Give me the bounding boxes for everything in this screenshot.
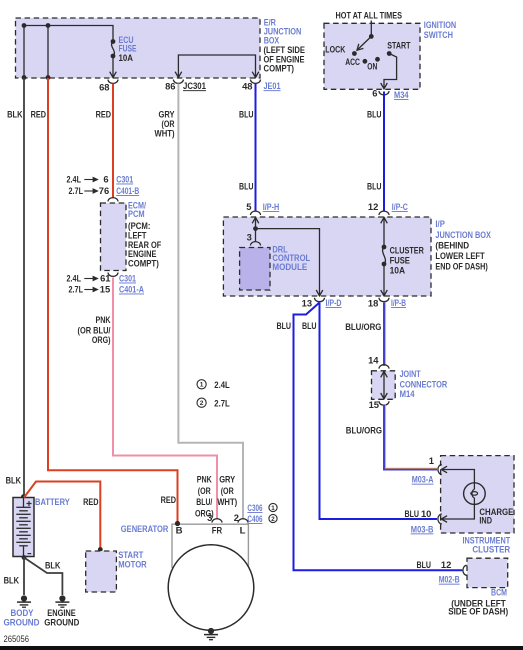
lamp filament curl: [472, 489, 474, 498]
svg-text:C401-B: C401-B: [116, 185, 139, 196]
svg-text:M03-B: M03-B: [411, 523, 434, 534]
svg-text:IND: IND: [479, 515, 492, 525]
pin 6 connector M34: [379, 91, 389, 95]
generator rotor circle: [168, 545, 254, 631]
svg-text:I/P: I/P: [435, 218, 445, 229]
svg-text:13: 13: [302, 298, 312, 309]
svg-text:1: 1: [429, 455, 434, 466]
bottom border bar: [0, 646, 523, 650]
svg-text:10A: 10A: [390, 265, 406, 276]
svg-text:BLU: BLU: [417, 559, 432, 570]
arrow down inside joint connector: [381, 393, 388, 399]
arrow in at pin 12: [381, 218, 388, 224]
svg-text:6: 6: [103, 174, 108, 185]
wire GRY from JC301 to generator L: [178, 84, 243, 519]
svg-text:PNK: PNK: [197, 474, 212, 485]
svg-text:M14: M14: [400, 388, 416, 399]
pin 48 connector JE01: [251, 80, 261, 84]
arrow out at pin 13: [316, 290, 323, 296]
generator case ground: [208, 628, 214, 634]
svg-text:SWITCH: SWITCH: [424, 29, 453, 40]
battery minus sign: [28, 553, 32, 555]
legend circled 2 = 2.7L: [197, 398, 206, 407]
svg-text:14: 14: [368, 355, 379, 366]
svg-text:2.4L: 2.4L: [67, 174, 82, 185]
arrow out at pin 48: [252, 72, 259, 78]
L connector arc: [238, 519, 248, 523]
svg-text:JE01: JE01: [264, 80, 281, 91]
svg-text:BLU: BLU: [239, 109, 254, 120]
node: I/P splice: [253, 226, 258, 231]
svg-text:2: 2: [200, 400, 204, 407]
svg-text:C301: C301: [116, 174, 133, 185]
wire: splice down to DRL pin 3: [255, 229, 257, 242]
arrow out at pin 18: [381, 290, 388, 296]
arrow out at pin 6: [381, 83, 388, 89]
wire BLU pin 13 to BCM pin 12: [294, 303, 463, 571]
svg-text:2.4L: 2.4L: [214, 379, 230, 390]
svg-text:BLK: BLK: [6, 475, 22, 486]
svg-text:I/P-D: I/P-D: [326, 297, 342, 308]
svg-text:RED: RED: [161, 494, 177, 505]
instrument cluster box outline: [441, 456, 514, 533]
wire RED from fuse 68 to ECM: [112, 84, 114, 199]
fuse ECU FUSE 10A: [111, 39, 116, 44]
pin 18 connector I/P-B: [379, 298, 389, 302]
wire BLU from M34 to I/P pin 12: [383, 92, 385, 212]
BCM box outline: [467, 558, 508, 587]
svg-text:START: START: [387, 39, 410, 50]
pin 68 connector: [108, 80, 118, 84]
svg-text:2.4L: 2.4L: [67, 273, 82, 284]
svg-text:BLU/ORG: BLU/ORG: [346, 425, 382, 436]
svg-text:BLU: BLU: [367, 181, 382, 192]
svg-text:1: 1: [200, 382, 204, 389]
svg-text:BLU: BLU: [367, 109, 382, 120]
wire: feed into ignition switch: [370, 21, 372, 37]
svg-text:(BEHIND: (BEHIND: [435, 240, 469, 251]
svg-text:10: 10: [421, 508, 431, 519]
wire: joint connector internal: [383, 372, 385, 398]
svg-text:BLU: BLU: [277, 320, 292, 331]
joint connector M14 box: [372, 371, 396, 400]
svg-text:C401-A: C401-A: [119, 284, 144, 295]
svg-text:6: 6: [372, 88, 377, 99]
wire: fuse output to pin 68: [112, 56, 114, 77]
ground: body ground symbol: [21, 595, 27, 601]
node: switch pivot: [369, 34, 374, 39]
wire BLU pin 13 to instrument cluster pin 10: [320, 303, 438, 520]
start motor box START MOTOR: [86, 551, 117, 592]
wire PNK from ECM to generator FR: [113, 278, 217, 519]
wire: E/R internal jumper pin 86 to pin 48: [178, 55, 255, 77]
svg-text:(OR: (OR: [198, 485, 211, 496]
FR connector arc: [212, 519, 222, 523]
svg-text:COMPT): COMPT): [128, 258, 159, 269]
svg-text:C306: C306: [247, 502, 262, 513]
wire: pin 1 to charge indicator lamp: [441, 470, 474, 483]
connector C301/C401-A below ECM: [108, 273, 118, 277]
svg-text:BLU: BLU: [405, 508, 420, 519]
svg-text:C406: C406: [247, 513, 262, 524]
node: LOCK position: [352, 51, 357, 56]
svg-text:WHT): WHT): [217, 496, 237, 507]
svg-text:12: 12: [368, 201, 378, 212]
node: splice corner dot: [22, 23, 27, 28]
svg-text:MOTOR: MOTOR: [118, 559, 147, 570]
node: BLK exit dot on box edge: [22, 75, 27, 80]
svg-text:JOINT: JOINT: [400, 368, 421, 379]
node: battery positive junction: [21, 494, 26, 499]
ignition switch box outline: [324, 23, 420, 89]
svg-text:BATTERY: BATTERY: [35, 496, 70, 507]
svg-text:GROUND: GROUND: [44, 616, 79, 627]
node: battery negative junction: [22, 555, 27, 560]
battery BATTERY: [13, 498, 34, 557]
battery plates: [23, 498, 25, 508]
svg-text:BLU: BLU: [302, 320, 317, 331]
wire BLU/ORG joint connector to cluster pin 1: [384, 405, 437, 470]
svg-text:GRY: GRY: [219, 474, 236, 485]
wire: pin 12 to cluster fuse: [383, 218, 385, 248]
svg-text:JUNCTION BOX: JUNCTION BOX: [435, 229, 491, 240]
DRL CONTROL MODULE box: [240, 248, 270, 291]
node: start motor terminal dot: [98, 547, 103, 552]
svg-text:LOWER LEFT: LOWER LEFT: [435, 250, 485, 261]
wire RED from E/R box to generator B: [48, 78, 178, 523]
svg-text:3: 3: [207, 512, 212, 523]
svg-text:2.7L: 2.7L: [69, 284, 84, 295]
svg-text:LOCK: LOCK: [325, 44, 345, 55]
E/R junction box (fuse box) outline: [16, 18, 261, 78]
node: B terminal dot: [175, 521, 180, 526]
svg-text:3: 3: [247, 232, 252, 243]
svg-text:(OR: (OR: [221, 485, 234, 496]
svg-text:PCM: PCM: [128, 208, 145, 219]
svg-text:BLK: BLK: [7, 109, 23, 120]
wire: START contact to pin 6: [384, 54, 397, 89]
svg-text:265056: 265056: [4, 634, 30, 644]
svg-text:2.7L: 2.7L: [214, 398, 230, 409]
wire: RED splice drop inside E/R box: [47, 26, 49, 78]
node: ACC position: [363, 59, 368, 64]
wire BLK battery to engine ground: [24, 558, 62, 596]
node: ON position: [375, 57, 380, 62]
svg-text:RED: RED: [83, 496, 99, 507]
svg-text:HOT AT ALL TIMES: HOT AT ALL TIMES: [336, 10, 403, 21]
arrow in at pin 1: [441, 466, 447, 473]
svg-text:GROUND: GROUND: [4, 616, 40, 627]
pin 15 connector: [379, 401, 389, 405]
svg-text:M02-B: M02-B: [439, 574, 460, 585]
svg-text:BLK: BLK: [45, 560, 61, 571]
svg-text:ON: ON: [367, 60, 377, 71]
svg-text:M34: M34: [394, 89, 409, 100]
svg-text:B: B: [176, 526, 183, 537]
svg-text:12: 12: [441, 559, 451, 570]
svg-text:I/P-H: I/P-H: [263, 201, 280, 212]
generator housing: [172, 524, 248, 568]
svg-text:48: 48: [242, 81, 252, 92]
I/P junction box outline: [223, 217, 431, 296]
pin 86 connector JC301: [173, 80, 183, 84]
svg-text:BLK: BLK: [4, 575, 20, 586]
svg-text:1: 1: [271, 505, 275, 512]
svg-text:2.7L: 2.7L: [69, 185, 84, 196]
svg-text:BLU/: BLU/: [196, 496, 212, 507]
wire BLK from E/R box to battery: [23, 78, 25, 497]
ground: engine ground symbol: [59, 595, 65, 601]
svg-text:CLUSTER: CLUSTER: [472, 544, 510, 555]
svg-text:COMPT): COMPT): [264, 63, 295, 74]
svg-text:5: 5: [246, 201, 251, 212]
node: splice dot RED branch: [46, 23, 51, 28]
svg-text:FR: FR: [212, 526, 222, 537]
arrow out at pin 68: [110, 72, 117, 78]
svg-text:END OF DASH): END OF DASH): [435, 260, 487, 271]
svg-text:10A: 10A: [119, 52, 134, 63]
svg-text:M03-A: M03-A: [412, 474, 434, 485]
wire BLK battery to body ground: [23, 558, 25, 596]
svg-text:RED: RED: [96, 109, 112, 120]
svg-text:SIDE OF DASH): SIDE OF DASH): [448, 605, 508, 616]
svg-text:ORG): ORG): [92, 334, 111, 345]
svg-text:BLU/ORG: BLU/ORG: [345, 321, 381, 332]
svg-text:RED: RED: [31, 109, 47, 120]
fuse CLUSTER FUSE 10A: [382, 245, 387, 250]
svg-text:I/P-B: I/P-B: [391, 297, 406, 308]
svg-text:76: 76: [99, 185, 109, 196]
svg-text:15: 15: [369, 399, 379, 410]
wire: pin 5 to DRL splice: [255, 218, 257, 229]
svg-text:86: 86: [165, 81, 175, 92]
legend circled 1 = 2.4L: [197, 380, 206, 389]
svg-text:GENERATOR: GENERATOR: [121, 523, 169, 534]
arrow out at pin 86: [175, 72, 182, 78]
battery plus sign: [27, 501, 32, 506]
arrow in at pin 5: [252, 218, 259, 224]
wire: splice across to pin 13: [256, 229, 320, 295]
svg-text:BCM: BCM: [491, 587, 507, 598]
node: RED exit dot on box edge: [46, 75, 51, 80]
svg-text:C301: C301: [119, 273, 136, 284]
svg-text:18: 18: [368, 298, 378, 309]
node: START position: [387, 51, 392, 56]
arrow up inside joint connector: [381, 372, 388, 378]
svg-text:BLU: BLU: [239, 181, 254, 192]
svg-text:MODULE: MODULE: [272, 261, 307, 272]
svg-text:68: 68: [99, 82, 109, 93]
lamp CHARGE IND: [464, 483, 486, 505]
svg-text:JC301: JC301: [183, 80, 206, 91]
connector C301/C401-B into ECM: [108, 198, 118, 202]
svg-text:WHT): WHT): [155, 128, 175, 139]
wire BLU/ORG pin 18 to joint connector M14: [383, 303, 385, 366]
svg-text:L: L: [240, 526, 246, 537]
wire: cluster fuse to pin 18: [383, 264, 385, 295]
svg-text:2: 2: [271, 516, 275, 523]
svg-text:15: 15: [100, 284, 110, 295]
wire BLU from JE01 to I/P pin 5: [255, 84, 257, 212]
pin 13 connector I/P-D: [315, 298, 325, 302]
svg-text:ACC: ACC: [345, 56, 360, 67]
svg-text:I/P-C: I/P-C: [392, 201, 408, 212]
svg-text:61: 61: [100, 273, 110, 284]
wire: E/R box internal bus from BLK drop to ECU fuse: [24, 26, 113, 78]
wire: lamp to pin 10: [441, 504, 474, 519]
wire RED battery to start motor: [24, 482, 100, 550]
ECM/PCM box: [101, 203, 127, 271]
switch arm toward LOCK: [358, 36, 371, 49]
arrow in at pin 10: [441, 516, 447, 523]
